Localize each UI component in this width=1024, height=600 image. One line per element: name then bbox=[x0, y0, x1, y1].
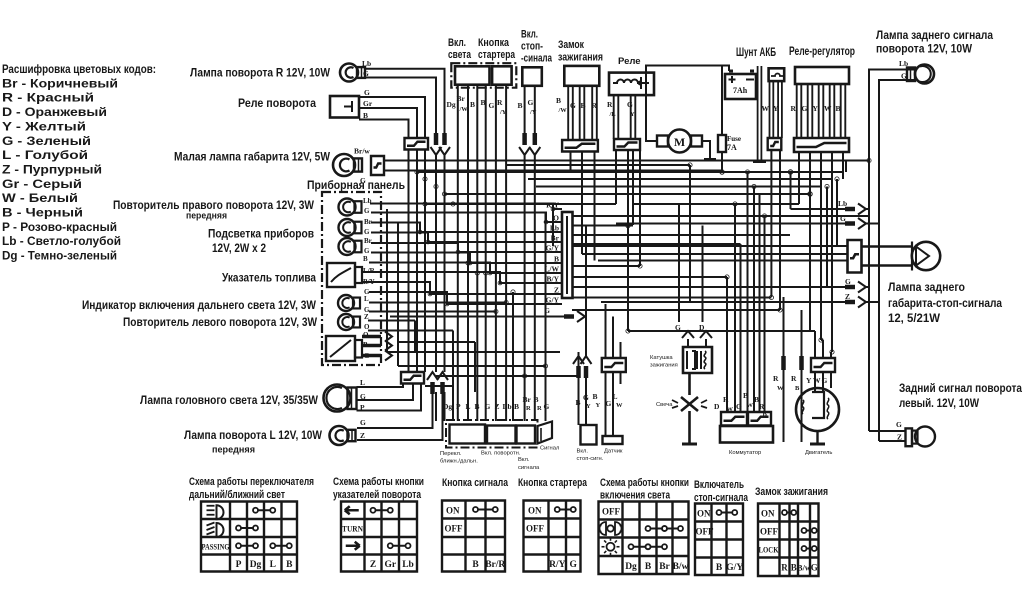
wire light-switch 3 bbox=[476, 85, 478, 421]
wire v475 bbox=[474, 342, 476, 392]
wire colour labels handlebar switches bbox=[443, 395, 550, 412]
wire panel h3 bbox=[398, 365, 546, 367]
svg-text:Gr: Gr bbox=[363, 99, 373, 108]
svg-text:W: W bbox=[777, 385, 784, 392]
caption: horn bbox=[540, 446, 559, 452]
svg-text:Z - Пурпурный: Z - Пурпурный bbox=[2, 162, 102, 176]
connector Lb rear bbox=[838, 199, 866, 215]
caption: engine bbox=[805, 450, 832, 456]
svg-text:стоп-сигнала: стоп-сигнала bbox=[694, 492, 749, 504]
wire motor to ground bbox=[702, 141, 710, 158]
wire Br/w position lamp bbox=[384, 160, 869, 162]
wire engine R/W bbox=[783, 297, 785, 442]
svg-text:ближн./дальн.: ближн./дальн. bbox=[440, 459, 478, 465]
wire light-switch 4 bbox=[485, 85, 487, 421]
fuse 7A bbox=[718, 135, 741, 152]
wire colour labels top area bbox=[447, 94, 598, 116]
svg-text:ON: ON bbox=[697, 509, 711, 519]
wire G rear right bbox=[879, 80, 914, 441]
svg-text:L - Голубой: L - Голубой bbox=[2, 148, 88, 162]
svg-text:Вкл. поворотн.: Вкл. поворотн. bbox=[481, 451, 521, 457]
svg-text:Y: Y bbox=[806, 376, 812, 385]
lamp: left turn repeater bbox=[338, 313, 370, 331]
connector: dimmer harness bbox=[401, 372, 424, 384]
wire engine Y bbox=[814, 331, 816, 358]
lamp: front left turn signal bbox=[330, 418, 367, 445]
svg-text:Лампа заднего: Лампа заднего bbox=[888, 280, 965, 294]
table header: dimmer bbox=[189, 476, 314, 501]
svg-text:R: R bbox=[497, 98, 503, 107]
svg-text:-синала: -синала bbox=[521, 53, 553, 65]
svg-text:B: B bbox=[716, 563, 723, 573]
switch: stop signal box bbox=[522, 67, 542, 86]
wire relay out2 bbox=[632, 150, 634, 225]
commutator bbox=[720, 412, 773, 443]
ground: motor bbox=[704, 158, 716, 161]
wires to commutator bbox=[727, 172, 765, 412]
svg-text:B: B bbox=[645, 562, 652, 572]
svg-text:W: W bbox=[616, 402, 623, 409]
connector: regulator harness bbox=[794, 138, 849, 152]
svg-text:G: G bbox=[360, 176, 366, 185]
label: rear turn signal lamp right bbox=[876, 28, 993, 56]
wire battery minus bus bbox=[758, 66, 762, 160]
regulator pins bbox=[797, 84, 846, 138]
connector pair stop switch bbox=[519, 133, 540, 155]
svg-text:Замок зажигания: Замок зажигания bbox=[755, 486, 828, 498]
switch: stop signal bottom box bbox=[581, 425, 597, 445]
svg-text:Свеча: Свеча bbox=[656, 402, 673, 408]
wire colour labels shunt bbox=[762, 104, 780, 113]
lamp: front right turn signal bbox=[340, 59, 371, 82]
battery 7Ah bbox=[725, 71, 756, 99]
wire h376 bbox=[436, 375, 579, 377]
wire panel down 1 bbox=[386, 209, 388, 352]
wire shunt W bbox=[770, 81, 774, 138]
engine: generator bbox=[796, 388, 839, 431]
wire regulator W down bbox=[831, 152, 833, 352]
wire G position lamp bbox=[384, 170, 722, 172]
svg-text:W: W bbox=[762, 104, 770, 113]
svg-text:PASSING: PASSING bbox=[202, 543, 230, 552]
wire plug to ground bbox=[688, 411, 691, 443]
lamp: instrument light 2 bbox=[339, 237, 372, 255]
wire relay to motor bbox=[646, 95, 657, 141]
svg-text:B: B bbox=[475, 402, 480, 411]
svg-text:Br: Br bbox=[659, 562, 670, 572]
svg-text:B: B bbox=[286, 560, 293, 570]
svg-text:стоп-сигн.: стоп-сигн. bbox=[577, 456, 604, 462]
wire stop-b bbox=[573, 352, 584, 378]
connector: relay harness bbox=[405, 138, 429, 150]
svg-text:G: G bbox=[802, 104, 808, 113]
wire stop-switch B bbox=[524, 86, 526, 138]
wire rear v837 bbox=[836, 179, 838, 246]
svg-text:B: B bbox=[836, 104, 841, 113]
wire G left turn bbox=[357, 392, 433, 428]
wires from panel lower lamps bbox=[368, 213, 506, 353]
table: turn signal button bbox=[341, 502, 417, 572]
svg-text:Z: Z bbox=[495, 402, 500, 411]
svg-text:M: M bbox=[674, 135, 685, 149]
svg-text:/L: /L bbox=[609, 111, 617, 118]
svg-text:Br - Коричневый: Br - Коричневый bbox=[2, 76, 118, 90]
wire P headlamp bbox=[357, 384, 422, 411]
svg-text:OFF: OFF bbox=[760, 527, 778, 537]
lamp: right turn repeater bbox=[339, 197, 372, 216]
label: ignition lock bbox=[558, 39, 603, 64]
lamp: small position 12V 5W bbox=[333, 147, 384, 186]
svg-text:B: B bbox=[470, 100, 475, 109]
svg-text:Вкл.: Вкл. bbox=[518, 457, 530, 463]
svg-text:Включатель: Включатель bbox=[694, 479, 744, 491]
horn bbox=[538, 422, 553, 444]
svg-text:стоп-: стоп- bbox=[521, 41, 543, 53]
ground: spark plug bbox=[682, 443, 697, 446]
bus wire y235 bbox=[572, 234, 790, 236]
wire G front-right turn bbox=[366, 78, 436, 139]
svg-text:дальний/ближний свет: дальний/ближний свет bbox=[189, 489, 285, 501]
wire starter G bbox=[495, 85, 497, 421]
table header: light switch bbox=[600, 477, 689, 502]
svg-text:Lb: Lb bbox=[838, 199, 847, 208]
wire Lb continuation bbox=[435, 155, 437, 372]
wire colour labels stop/sensor bbox=[576, 392, 624, 410]
svg-text:Лампа поворота L 12V, 10W: Лампа поворота L 12V, 10W bbox=[184, 428, 322, 442]
junction rear bbox=[825, 177, 839, 189]
wire relay-1 down bbox=[408, 150, 410, 373]
connector: shunt harness bbox=[768, 138, 782, 150]
svg-text:/W: /W bbox=[459, 106, 469, 113]
label: light switch bbox=[448, 37, 472, 61]
svg-text:Lb - Светло-голубой: Lb - Светло-голубой bbox=[2, 234, 121, 248]
svg-text:/W: /W bbox=[558, 107, 568, 114]
svg-text:Вкл.: Вкл. bbox=[521, 29, 538, 41]
svg-text:B: B bbox=[795, 385, 800, 392]
svg-text:Кнопка сигнала: Кнопка сигнала bbox=[442, 477, 509, 489]
connector G rear2 bbox=[845, 277, 866, 293]
wire v545 horn bbox=[545, 380, 547, 421]
bus wire y172 bbox=[417, 171, 843, 173]
wire v444 to dimmer bbox=[444, 392, 446, 421]
svg-text:Y: Y bbox=[596, 402, 601, 409]
caption: sensor bbox=[604, 449, 623, 455]
wire colour labels engine bbox=[773, 374, 828, 392]
spark plug bbox=[672, 397, 707, 411]
wire shunt Y left bbox=[572, 309, 780, 311]
svg-text:передняя: передняя bbox=[212, 445, 255, 456]
wire v690 bbox=[689, 165, 691, 302]
gauge: speedometer bbox=[326, 331, 370, 361]
bus wire y204 bbox=[423, 202, 616, 206]
svg-text:Z: Z bbox=[370, 560, 376, 570]
wire stop B cont bbox=[524, 155, 526, 421]
wire G rear left bbox=[869, 430, 906, 432]
wire sensor LW bbox=[613, 372, 621, 436]
wire panel v453 bbox=[452, 331, 454, 422]
wire h165 bbox=[506, 164, 690, 166]
svg-text:G: G bbox=[570, 560, 578, 570]
wire relay to battery plus bbox=[646, 66, 729, 96]
svg-text:стартера: стартера bbox=[478, 49, 516, 61]
caption: ignition coil bbox=[650, 355, 678, 369]
svg-text:W: W bbox=[747, 402, 754, 409]
svg-text:B - Черный: B - Черный bbox=[2, 206, 83, 220]
caption: stop switch bbox=[577, 449, 604, 463]
svg-text:габарита-стоп-сигнала: габарита-стоп-сигнала bbox=[888, 296, 1002, 310]
svg-text:P - Розово-красный: P - Розово-красный bbox=[2, 220, 117, 234]
svg-text:Реле: Реле bbox=[618, 56, 641, 67]
svg-text:Схема работы кнопки: Схема работы кнопки bbox=[600, 477, 689, 489]
wire ignition 1 bbox=[568, 86, 573, 140]
wire relay-3 down bbox=[424, 150, 426, 373]
connector Z rear bbox=[845, 292, 866, 308]
wire stop-b2 bbox=[578, 376, 580, 380]
svg-text:ON: ON bbox=[761, 509, 775, 519]
svg-text:Gr: Gr bbox=[384, 560, 396, 570]
bus wire y179 bbox=[528, 178, 832, 180]
wire engine pins bbox=[815, 372, 831, 392]
wire B from relay bbox=[359, 120, 409, 139]
wire engine R/B bbox=[801, 310, 803, 442]
switch: dimmer box bbox=[450, 425, 486, 444]
svg-text:B: B bbox=[534, 395, 539, 404]
svg-text:Lb: Lb bbox=[503, 402, 512, 411]
svg-text:G: G bbox=[489, 101, 495, 110]
ground: engine bbox=[810, 443, 825, 446]
shunt: battery shunt bbox=[769, 68, 785, 81]
caption: dimmer bbox=[440, 451, 478, 465]
wire regulator Y down bbox=[820, 152, 822, 340]
wire panel v513 bbox=[512, 292, 514, 421]
instrument panel dash-dot border bbox=[322, 192, 381, 365]
connector: main harness tall bbox=[562, 212, 573, 298]
svg-text:L: L bbox=[360, 378, 365, 387]
caption: horn button bbox=[518, 457, 540, 471]
wires from instrument panel staircase bbox=[362, 204, 562, 306]
svg-text:R: R bbox=[759, 402, 765, 411]
svg-text:включения света: включения света bbox=[600, 490, 671, 502]
svg-text:Индикатор включения дальнего с: Индикатор включения дальнего света 12V, … bbox=[82, 298, 316, 312]
svg-text:G: G bbox=[528, 98, 534, 107]
wire relay-2 down bbox=[416, 150, 418, 373]
svg-text:LOCK: LOCK bbox=[759, 546, 780, 555]
svg-text:Датчик: Датчик bbox=[604, 449, 623, 455]
wire sensor G bbox=[605, 372, 607, 436]
wire colour labels starter relay bbox=[607, 100, 635, 118]
label: rear turn signal left bbox=[899, 381, 1022, 410]
svg-text:Схема работы кнопки: Схема работы кнопки bbox=[333, 476, 424, 488]
wire stop v2 bbox=[585, 380, 587, 425]
svg-text:G: G bbox=[845, 277, 851, 286]
svg-text:Z: Z bbox=[360, 431, 365, 440]
svg-text:Dg: Dg bbox=[625, 562, 637, 572]
wire ign below conn 2 bbox=[581, 152, 583, 255]
svg-text:указателей поворота: указателей поворота bbox=[333, 489, 422, 501]
svg-text:OFF: OFF bbox=[602, 507, 620, 517]
svg-text:G: G bbox=[364, 228, 370, 236]
svg-text:Расшифровка цветовых кодов:: Расшифровка цветовых кодов: bbox=[2, 62, 156, 76]
svg-text:ON: ON bbox=[446, 506, 460, 516]
svg-text:передняя: передняя bbox=[186, 211, 227, 222]
svg-text:левый. 12V, 10W: левый. 12V, 10W bbox=[899, 396, 979, 410]
svg-text:12V, 2W x 2: 12V, 2W x 2 bbox=[212, 241, 266, 255]
wire regulator R down bbox=[798, 152, 800, 204]
svg-text:L: L bbox=[364, 295, 369, 303]
svg-text:Br: Br bbox=[523, 395, 532, 404]
svg-text:Br/R: Br/R bbox=[485, 560, 505, 570]
wire v578 up bbox=[578, 352, 580, 376]
wire colour labels main harness bbox=[544, 201, 559, 305]
bus wire y216 bbox=[572, 215, 868, 217]
wire panel v553 bbox=[552, 204, 554, 247]
wire h331 bbox=[628, 330, 815, 332]
svg-text:L: L bbox=[466, 402, 471, 411]
svg-text:L: L bbox=[270, 560, 276, 570]
svg-text:R: R bbox=[791, 374, 797, 383]
svg-text:G: G bbox=[627, 100, 633, 109]
wire Lb rear right bbox=[869, 70, 914, 432]
svg-text:B: B bbox=[791, 563, 797, 573]
connector: starter relay harness bbox=[614, 139, 640, 150]
wire relay pin G/Y bbox=[631, 95, 636, 139]
svg-text:ON: ON bbox=[528, 506, 542, 516]
svg-text:света: света bbox=[448, 49, 472, 61]
lamp: rear right turn signal bbox=[899, 59, 934, 84]
svg-text:Подсветка приборов: Подсветка приборов bbox=[208, 227, 314, 241]
svg-text:Лампа заднего сигнала: Лампа заднего сигнала bbox=[876, 28, 993, 42]
svg-text:Повторитель левого поворота 12: Повторитель левого поворота 12V, 3W bbox=[123, 315, 317, 329]
svg-text:Gr - Серый: Gr - Серый bbox=[2, 177, 82, 191]
svg-text:Коммутатор: Коммутатор bbox=[729, 450, 761, 456]
svg-text:G: G bbox=[485, 402, 491, 411]
connector: ignition harness bbox=[562, 140, 598, 152]
wire h342 bbox=[398, 341, 475, 343]
table: dimmer switch bbox=[201, 502, 297, 572]
svg-text:G - Зеленый: G - Зеленый bbox=[2, 134, 91, 148]
wire junction dots bbox=[415, 158, 871, 378]
svg-text:W - Белый: W - Белый bbox=[2, 191, 78, 205]
svg-text:зажигания: зажигания bbox=[558, 52, 603, 64]
wire v679 coil G bbox=[679, 204, 688, 346]
svg-text:Dg: Dg bbox=[447, 100, 456, 109]
caption: turn switch bbox=[481, 451, 521, 457]
wire ignition 2 bbox=[580, 86, 585, 140]
svg-text:Кнопка стартера: Кнопка стартера bbox=[518, 477, 588, 489]
svg-text:R: R bbox=[537, 405, 542, 412]
svg-text:G: G bbox=[896, 420, 902, 429]
svg-text:Кнопка: Кнопка bbox=[478, 37, 510, 49]
wire G headlamp bbox=[357, 384, 414, 401]
svg-text:Br: Br bbox=[364, 218, 372, 226]
svg-text:Реле поворота: Реле поворота bbox=[238, 96, 316, 110]
switch: ignition lock box bbox=[564, 66, 599, 86]
svg-text:Z: Z bbox=[845, 292, 850, 301]
svg-text:Y - Желтый: Y - Желтый bbox=[2, 119, 86, 133]
wire light-switch 2 bbox=[467, 85, 469, 421]
wire h340 bbox=[821, 339, 823, 341]
svg-text:Br/w: Br/w bbox=[354, 147, 370, 156]
lamp: rear left turn signal bbox=[896, 420, 935, 447]
svg-text:G: G bbox=[364, 88, 370, 97]
svg-text:G/Y: G/Y bbox=[726, 563, 743, 573]
wire ignition 3 bbox=[592, 86, 597, 140]
bus wire y277 bbox=[572, 276, 727, 278]
svg-text:OFF: OFF bbox=[696, 527, 714, 537]
table header: stop switch bbox=[694, 479, 749, 504]
svg-text:R/Y: R/Y bbox=[549, 560, 566, 570]
wire v436 to dimmer bbox=[435, 392, 437, 421]
table: light switch bbox=[599, 502, 689, 575]
connector: speedometer triple bbox=[362, 332, 392, 361]
svg-text:W: W bbox=[824, 104, 832, 113]
svg-text:Указатель топлива: Указатель топлива bbox=[222, 271, 316, 285]
svg-text:OFF: OFF bbox=[445, 524, 463, 534]
wire stop G/Y cont bbox=[534, 155, 536, 421]
wire G continuation bbox=[444, 155, 446, 372]
wire panel v546 bbox=[545, 213, 547, 422]
wire Z rear left bbox=[879, 440, 906, 442]
table: starter button bbox=[524, 501, 581, 572]
svg-text:сигнала: сигнала bbox=[518, 465, 540, 471]
wire Z arrow link bbox=[601, 301, 845, 303]
wire regulator B down bbox=[842, 152, 844, 179]
svg-text:Двигатель: Двигатель bbox=[805, 450, 832, 456]
svg-text:Задний сигнал поворота: Задний сигнал поворота bbox=[899, 381, 1022, 395]
svg-text:G: G bbox=[811, 563, 818, 573]
table header: starter button bbox=[518, 477, 588, 489]
label: regulator relay bbox=[789, 46, 855, 58]
svg-text:Y: Y bbox=[773, 104, 779, 113]
junction dots bbox=[626, 170, 812, 228]
svg-text:B: B bbox=[363, 255, 368, 263]
wire engine G bbox=[830, 352, 832, 358]
svg-text:B: B bbox=[472, 560, 479, 570]
svg-text:Реле-регулятор: Реле-регулятор bbox=[789, 46, 855, 58]
svg-text:B/w: B/w bbox=[673, 562, 689, 572]
wire shunt W left bbox=[572, 297, 771, 299]
table header: horn button bbox=[442, 477, 509, 489]
wire Z left turn bbox=[357, 392, 443, 440]
svg-text:Lb: Lb bbox=[899, 59, 908, 68]
wire stop lamp 2 bbox=[582, 253, 848, 255]
ignition coil bbox=[683, 347, 712, 373]
wire sensor up bbox=[606, 304, 621, 358]
table: horn button bbox=[442, 501, 505, 572]
wire G from relay bbox=[359, 97, 425, 138]
svg-text:R: R bbox=[781, 563, 788, 573]
handlebar switch dash-dot box bbox=[446, 420, 538, 448]
svg-text:Lb: Lb bbox=[402, 560, 414, 570]
wire ign below conn 3 bbox=[594, 152, 596, 261]
switch: starter button box bbox=[492, 66, 512, 84]
wire Gr from relay bbox=[359, 108, 417, 138]
lamp: instrument light 1 bbox=[339, 218, 372, 236]
svg-text:B: B bbox=[556, 96, 561, 105]
caption: spark plug bbox=[656, 402, 673, 408]
wire shunt Y bbox=[778, 81, 782, 138]
wire v628 bbox=[627, 150, 629, 331]
svg-text:R - Красный: R - Красный bbox=[2, 91, 94, 105]
svg-text:B: B bbox=[514, 402, 519, 411]
svg-text:R: R bbox=[526, 405, 531, 412]
wire panel long down bbox=[397, 222, 399, 366]
svg-text:TURN: TURN bbox=[342, 524, 364, 534]
wire starter R/Y bbox=[505, 85, 507, 421]
label: starter button bbox=[478, 37, 516, 61]
svg-text:Катушка: Катушка bbox=[650, 355, 673, 361]
bus wire y266 bbox=[572, 265, 640, 267]
